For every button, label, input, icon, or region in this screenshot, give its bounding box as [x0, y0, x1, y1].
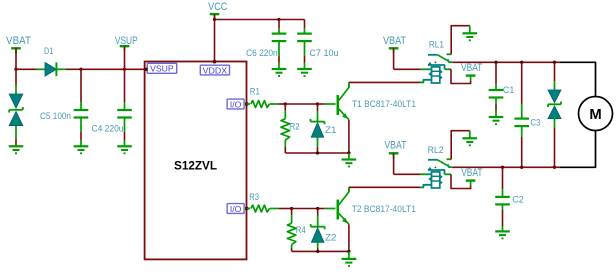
- capacitor C1: [489, 62, 515, 117]
- svg-text:VBAT: VBAT: [384, 140, 406, 152]
- svg-text:VCC: VCC: [208, 1, 227, 13]
- motor M: [579, 97, 613, 131]
- svg-text:M: M: [589, 107, 601, 123]
- port VSUP on U1: [144, 63, 176, 73]
- wire T1 collector to RL1 coil: [349, 82, 420, 87]
- ground at RL2 NC: [463, 131, 478, 146]
- svg-text:VBAT: VBAT: [461, 167, 483, 179]
- port VDDX on U1: [200, 60, 229, 75]
- port I/O upper on U1: [227, 99, 248, 109]
- node K junction: [316, 207, 319, 210]
- wire node B to node C: [81, 68, 125, 70]
- svg-text:C6 220n: C6 220n: [246, 47, 278, 58]
- transistor T2: [338, 187, 416, 224]
- node P junction (C3 bottom): [520, 166, 523, 169]
- wire node D to U1 VDDX pin: [214, 20, 216, 62]
- wire VBAT to RL2 coil: [394, 153, 421, 174]
- resistor R4: [287, 209, 305, 252]
- wire D1 to node B: [66, 68, 81, 70]
- node B junction (C5 tap): [79, 68, 82, 71]
- wire T2 collector to RL2 coil: [349, 187, 420, 192]
- svg-text:C4 220u: C4 220u: [92, 122, 124, 133]
- svg-text:RL1: RL1: [429, 38, 444, 49]
- svg-text:R3: R3: [249, 191, 259, 202]
- svg-text:VBAT: VBAT: [383, 35, 406, 47]
- svg-text:C3: C3: [530, 116, 540, 127]
- power flag VBAT at RL1 NO: [461, 62, 483, 81]
- svg-text:VBAT: VBAT: [461, 62, 483, 74]
- wire T1 emitter to ground node: [348, 120, 350, 153]
- svg-text:I/O: I/O: [230, 205, 242, 214]
- ground at RL1 NC: [463, 26, 478, 41]
- resistor R3: [247, 191, 279, 212]
- node D junction: [213, 18, 216, 21]
- relay RL2: [420, 144, 452, 188]
- ground under C5: [74, 146, 89, 153]
- capacitor C4 220u: [92, 69, 132, 146]
- wire motor feed top (black): [560, 62, 596, 96]
- node M junction (emitter/ground): [347, 250, 350, 253]
- svg-text:T2 BC817-40LT1: T2 BC817-40LT1: [352, 203, 416, 214]
- svg-text:VSUP: VSUP: [150, 65, 174, 74]
- power flag VBAT for RL2 coil: [384, 140, 406, 159]
- node E junction (C6 tap): [277, 18, 280, 21]
- wire T2 emitter to ground node: [348, 224, 350, 251]
- node N junction (C1 tap): [494, 61, 497, 64]
- ground under C1: [489, 117, 504, 124]
- wire gate bottom rail upper: [285, 152, 349, 154]
- wire VCC flag to node D: [214, 14, 216, 19]
- power flag VBAT for RL1 coil: [383, 35, 406, 53]
- node H junction (Z1 bottom): [316, 151, 319, 154]
- svg-text:C7 10u: C7 10u: [309, 47, 338, 58]
- power flag VSUP: [115, 35, 138, 51]
- wire node C to U1 VSUP pin: [125, 68, 147, 70]
- ground under TVS: [9, 146, 24, 153]
- node O junction (C3 top): [520, 61, 523, 64]
- wire VBAT flag to node A: [15, 48, 17, 69]
- svg-text:I/O: I/O: [230, 100, 242, 109]
- transistor T1: [338, 83, 416, 120]
- svg-text:VDDX: VDDX: [203, 66, 228, 75]
- resistor R2: [281, 104, 300, 153]
- capacitor C5 100n: [40, 69, 88, 146]
- wire node J to node K: [292, 208, 318, 210]
- node I junction (emitter/ground): [347, 151, 350, 154]
- ground under C2: [495, 231, 510, 238]
- port I/O lower on U1: [227, 204, 248, 214]
- wire node E to C7: [279, 20, 305, 29]
- diode D1: [37, 45, 67, 76]
- power flag VBAT at RL2 NO: [461, 167, 483, 186]
- node F junction: [284, 102, 287, 105]
- capacitor C7 10u: [297, 28, 338, 69]
- power flag VBAT (battery input): [6, 35, 31, 53]
- TVS suppressor across motor: [548, 62, 561, 167]
- svg-text:Z1: Z1: [325, 124, 337, 135]
- svg-text:C5 100n: C5 100n: [40, 110, 71, 121]
- svg-text:VBAT: VBAT: [6, 35, 31, 47]
- wire VSUP flag to node C: [124, 46, 126, 69]
- wire R3 to node J: [278, 208, 291, 210]
- MCU U1 S12ZVL body: [145, 62, 247, 260]
- node A junction: [14, 68, 17, 71]
- wire node K to T2 base: [318, 208, 336, 210]
- ground under T2: [342, 251, 357, 266]
- wire node A to diode D1: [16, 68, 37, 70]
- svg-text:Z2: Z2: [325, 231, 337, 242]
- wire node G to T1 base: [318, 103, 336, 105]
- svg-text:S12ZVL: S12ZVL: [174, 158, 217, 172]
- ground under C7: [297, 69, 312, 76]
- svg-text:R4: R4: [296, 224, 306, 235]
- svg-text:R1: R1: [250, 85, 260, 96]
- node L junction (Z2 bottom): [316, 250, 319, 253]
- ground under T1: [342, 153, 357, 167]
- capacitor C6 220n: [246, 20, 286, 70]
- wire RL2 NC contact to ground: [451, 131, 470, 160]
- node C junction (VSUP tap): [123, 68, 126, 71]
- wire RL2 pole to motor rail bottom: [452, 166, 560, 168]
- wire node F to node G: [285, 103, 317, 105]
- wire RL1 NO contact to VBAT flag: [451, 69, 471, 83]
- capacitor C3: [514, 62, 540, 167]
- svg-text:R2: R2: [290, 120, 300, 131]
- node G junction: [316, 102, 319, 105]
- node R junction (TVS bottom): [553, 166, 556, 169]
- svg-text:C1: C1: [503, 84, 514, 95]
- power flag VCC: [208, 1, 227, 19]
- wire R1 to node F: [278, 103, 285, 105]
- wire RL1 pole to motor rail top: [452, 61, 560, 63]
- TVS suppressor on VBAT: [9, 69, 23, 146]
- svg-text:C2: C2: [512, 193, 524, 204]
- node J junction: [290, 207, 293, 210]
- relay RL1: [420, 38, 452, 83]
- zener Z2: [311, 209, 337, 252]
- wire RL1 NC contact to ground: [451, 26, 470, 55]
- node Q junction (TVS top): [553, 61, 556, 64]
- svg-text:RL2: RL2: [428, 144, 444, 155]
- ground under C4: [117, 146, 132, 153]
- wire RL2 NO contact to VBAT flag: [451, 174, 471, 188]
- resistor R1: [247, 85, 279, 107]
- wire VBAT to RL1 coil: [394, 48, 421, 69]
- node S junction (C2 tap): [501, 166, 504, 169]
- wire node D to node E: [215, 19, 280, 21]
- svg-text:D1: D1: [44, 45, 53, 56]
- capacitor C2: [495, 167, 524, 231]
- wire motor return bottom (black): [560, 130, 596, 167]
- wire gate bottom rail lower: [292, 250, 349, 252]
- zener Z1: [311, 104, 337, 153]
- svg-text:T1 BC817-40LT1: T1 BC817-40LT1: [352, 98, 416, 109]
- ground under C6: [272, 69, 287, 76]
